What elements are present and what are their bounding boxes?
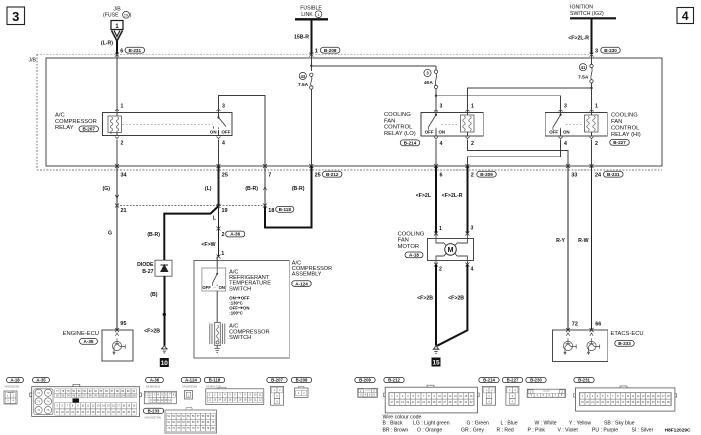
svg-text:15: 15: [432, 360, 440, 367]
svg-text:B-231: B-231: [578, 378, 590, 383]
svg-text:(L-R): (L-R): [101, 41, 113, 47]
wire 2L-R from ignition switch: [591, 18, 593, 54]
svg-text:R : Red: R : Red: [497, 428, 514, 434]
J/B inner solid box: [46, 58, 662, 166]
svg-text:BR : Brown: BR : Brown: [383, 428, 409, 434]
svg-text:1: 1: [439, 226, 442, 232]
fuse 3 40A: [435, 66, 437, 70]
wires 2B to ground 15: [435, 265, 437, 346]
dashed connector tie pins 6-2: [436, 169, 467, 171]
svg-text:ON: ON: [210, 130, 217, 135]
relay coil (pins 1-2): [115, 109, 119, 111]
svg-text:): ): [130, 13, 132, 19]
svg-text:R-Y: R-Y: [556, 238, 565, 244]
svg-text:ETACS-ECU: ETACS-ECU: [611, 331, 644, 337]
A/C compressor switch: [210, 324, 212, 345]
svg-text:72: 72: [572, 322, 578, 328]
svg-text:2: 2: [121, 141, 124, 147]
wire: A/C relay pin 4 to J/B pin 25: [218, 140, 220, 167]
svg-text:B-207: B-207: [82, 127, 95, 132]
J/B junction block dashed outline: [37, 54, 662, 170]
cooling fan control relay (LO) B-214: [421, 112, 483, 136]
svg-text:B-208: B-208: [296, 378, 308, 383]
svg-text:(FUSE: (FUSE: [103, 13, 119, 19]
svg-text:V : Violet: V : Violet: [558, 428, 579, 434]
svg-text:MOTOR: MOTOR: [398, 244, 419, 250]
svg-text:4: 4: [440, 141, 443, 147]
svg-text:B-233: B-233: [618, 341, 631, 346]
svg-text:B-212: B-212: [326, 172, 339, 177]
wire R-Y: J/B pin 33 to ETACS pin 72: [567, 166, 569, 330]
svg-text:104: 104: [121, 394, 126, 397]
connector A-18: [7, 377, 24, 382]
svg-text:1: 1: [595, 104, 598, 110]
svg-text:A-124: A-124: [185, 378, 197, 383]
svg-text:A-36: A-36: [230, 232, 240, 237]
svg-text:4: 4: [222, 141, 225, 147]
HI relay contact pins 3-4: [559, 110, 563, 112]
svg-text:106: 106: [132, 394, 137, 397]
dashed connector tie pins 33-24: [568, 169, 592, 171]
svg-text:B-214: B-214: [483, 378, 495, 383]
page marker 4: [677, 8, 694, 24]
wire: LO relay pin 4 to J/B pin 6: [435, 140, 437, 167]
svg-text:G: G: [108, 231, 112, 237]
svg-text:B-207: B-207: [271, 378, 283, 383]
svg-text:6: 6: [440, 173, 443, 179]
svg-text:(MU803754): (MU803754): [145, 416, 162, 420]
svg-text:OFF: OFF: [425, 130, 434, 135]
ETACS-ECU B-233: [553, 330, 608, 361]
svg-text:FAN: FAN: [611, 119, 622, 125]
LO relay contact pins 3-4: [434, 110, 438, 112]
wire: HI relay pin 4 to J/B pin 2 (B-209): [467, 140, 560, 167]
svg-text:MU803611: MU803611: [146, 385, 161, 389]
connector B-214: [479, 377, 499, 382]
page marker 3: [7, 7, 25, 25]
svg-text:43: 43: [300, 74, 305, 79]
bus: 40A fuse to HI relay pin 3: [436, 96, 561, 109]
in-line connector pin 21: [115, 195, 119, 198]
svg-text:Wire colour code: Wire colour code: [383, 414, 422, 420]
svg-text:B-227: B-227: [507, 378, 519, 383]
transistor in engine ECU: [112, 341, 121, 350]
svg-text:B-227: B-227: [613, 140, 626, 145]
svg-text:R-W: R-W: [578, 238, 588, 244]
wire: 6 B-231 down to A/C relay pin 1: [116, 55, 118, 109]
transistors in ETACS: [563, 341, 572, 350]
svg-text:15B-R: 15B-R: [294, 35, 309, 41]
svg-text:G : Green: G : Green: [467, 421, 490, 427]
wire: B-208 feed bus: [310, 55, 312, 71]
svg-text:Y : Yellow: Y : Yellow: [569, 421, 591, 427]
ground 10: [162, 346, 167, 349]
svg-text:40A: 40A: [424, 80, 433, 86]
svg-text:4: 4: [682, 9, 689, 23]
svg-text:(B-R): (B-R): [292, 186, 305, 192]
connector A-35: [33, 377, 50, 382]
connector A-36: [146, 377, 164, 382]
svg-text:19: 19: [222, 208, 228, 214]
svg-text:2: 2: [471, 141, 474, 147]
HI relay coil pins 1-2: [590, 110, 594, 112]
svg-text:COOLING: COOLING: [384, 112, 411, 118]
svg-text:A-36: A-36: [150, 378, 160, 383]
svg-text:RELAY (HI): RELAY (HI): [611, 132, 641, 138]
svg-text:B-230: B-230: [604, 48, 617, 53]
svg-text:(B): (B): [150, 292, 157, 298]
svg-text:SI : Silver: SI : Silver: [632, 428, 654, 434]
wire: LO relay pin 2 to J/B pin 33: [468, 140, 569, 167]
fuse 43 7.5A: [310, 73, 313, 76]
svg-text:RELAY (LO): RELAY (LO): [384, 131, 416, 137]
svg-text:1: 1: [315, 48, 318, 54]
svg-text:21: 21: [121, 208, 127, 214]
svg-text:(B-R): (B-R): [147, 232, 160, 238]
svg-text:4: 4: [471, 267, 474, 273]
svg-text:LINK: LINK: [301, 12, 313, 18]
wire (L): J/B pin 25 to junction 19: [218, 166, 220, 206]
svg-text:B-214: B-214: [404, 140, 417, 145]
svg-text:PU : Purple: PU : Purple: [592, 428, 618, 434]
svg-text:ON: ON: [563, 130, 570, 135]
bus: fuse 41 to relay coils (LO pin1, HI pin1): [468, 88, 592, 109]
svg-text:B-233: B-233: [148, 408, 160, 413]
connector B-212: [384, 377, 404, 382]
svg-text:COMPRESSOR: COMPRESSOR: [55, 119, 97, 125]
svg-text:A-35: A-35: [84, 339, 94, 344]
svg-text:<F>2B: <F>2B: [417, 296, 433, 302]
svg-text::100°C: :100°C: [229, 310, 242, 315]
svg-text:B-212: B-212: [388, 378, 400, 383]
wire: HI relay pin 2 to J/B pin 24: [591, 140, 593, 167]
svg-text:B-118: B-118: [279, 207, 292, 212]
svg-text:1: 1: [471, 104, 474, 110]
svg-text:W : White: W : White: [535, 421, 557, 427]
wire ignition fuse 41 7.5A: [591, 55, 593, 66]
svg-text:(B-R): (B-R): [245, 186, 258, 192]
svg-text:<F>2L-R: <F>2L-R: [568, 36, 589, 42]
svg-text:(L): (L): [205, 186, 212, 192]
svg-text:B-209: B-209: [480, 172, 493, 177]
wire (B-R): J/B pin 7 to in-line connector 18 B-118: [264, 166, 266, 206]
svg-text:ON: ON: [439, 130, 446, 135]
wire 15B-R: [310, 19, 312, 54]
svg-text:100: 100: [99, 394, 104, 397]
svg-text:7.5A: 7.5A: [578, 74, 589, 80]
svg-text:MU802565: MU802565: [183, 385, 198, 389]
svg-text:18: 18: [268, 208, 274, 214]
motor symbol: [436, 234, 467, 243]
svg-text:66: 66: [595, 322, 601, 328]
svg-text:ON: ON: [243, 305, 249, 310]
svg-text:ON: ON: [219, 285, 225, 290]
connector B-118: [204, 377, 224, 382]
wire inside assembly: [216, 291, 218, 322]
diode B-27: [155, 260, 172, 276]
A/C refrigerant temperature switch: [216, 257, 218, 269]
svg-text:3: 3: [564, 104, 567, 110]
connector B-207: [267, 377, 287, 382]
svg-text:B-231: B-231: [607, 172, 620, 177]
connector B-231: [574, 377, 594, 382]
svg-text:A-18: A-18: [10, 378, 20, 383]
connector B-209: [355, 377, 375, 382]
svg-text:2: 2: [439, 267, 442, 273]
svg-text:105: 105: [126, 394, 131, 397]
svg-text:(G): (G): [103, 186, 111, 192]
J/B bottom connector pins: [115, 164, 119, 168]
svg-text:3: 3: [595, 48, 598, 54]
svg-text:J/B: J/B: [29, 58, 37, 64]
connector B-230: [526, 377, 546, 382]
svg-text:M: M: [448, 247, 454, 254]
svg-text:B : Black: B : Black: [383, 421, 404, 427]
svg-text:7.5A: 7.5A: [298, 82, 309, 88]
svg-text:P : Pink: P : Pink: [528, 428, 546, 434]
dashed in-line connector line (21/19/18): [117, 205, 265, 207]
wire (B): diode to ground 10: [163, 276, 165, 345]
svg-text:DIODE: DIODE: [137, 262, 154, 268]
svg-text:ENGINE-ECU: ENGINE-ECU: [63, 331, 99, 337]
svg-text:<F>2B: <F>2B: [448, 296, 464, 302]
svg-text:GR : Grey: GR : Grey: [461, 428, 484, 434]
svg-text:<F>W: <F>W: [201, 242, 215, 248]
relay contact (pins 3-4): [217, 109, 221, 111]
wire: A/C relay pin 2 to J/B pin 34: [116, 140, 118, 167]
svg-text:MU802556: MU802556: [5, 385, 20, 389]
A/C compressor relay B-207: [102, 112, 232, 135]
svg-text:A-35: A-35: [36, 378, 46, 383]
svg-text:102: 102: [110, 394, 115, 397]
svg-text:B-208: B-208: [324, 48, 337, 53]
svg-text:LG : Light green: LG : Light green: [413, 421, 450, 427]
wire 2L: J/B pin 6 to fan motor pin 1: [435, 166, 437, 234]
svg-text:2: 2: [471, 173, 474, 179]
svg-text:H8F12029C: H8F12029C: [665, 428, 691, 434]
internal ground of assembly: [216, 346, 218, 349]
wire (B-R): J/B pin 25 B-212 jog to B-118: [265, 166, 311, 228]
LO relay coil pins 1-2: [466, 110, 470, 112]
svg-text:19: 19: [124, 13, 128, 17]
svg-text:O : Orange: O : Orange: [417, 428, 442, 434]
svg-text:COOLING: COOLING: [398, 232, 425, 238]
svg-text:7: 7: [268, 173, 271, 179]
cooling fan motor A-18: [428, 238, 474, 260]
svg-text:OFF: OFF: [222, 130, 231, 135]
connector A-124: [181, 377, 201, 382]
connector B-227: [502, 377, 522, 382]
svg-text:B-118: B-118: [209, 378, 221, 383]
svg-text:25: 25: [222, 173, 228, 179]
svg-text:2: 2: [595, 141, 598, 147]
svg-text:<F>2B: <F>2B: [144, 329, 160, 335]
wire (L-R) from J/B fuse: [116, 41, 118, 55]
svg-text:B-27: B-27: [142, 269, 153, 275]
svg-text:3: 3: [222, 104, 225, 110]
svg-text:A-18: A-18: [409, 253, 419, 258]
ground 15: [433, 346, 438, 349]
wire L: junction 19 to A-36 connector: [218, 206, 220, 257]
svg-text:OFF: OFF: [549, 130, 558, 135]
svg-text:CONTROL: CONTROL: [611, 126, 640, 132]
svg-text:34: 34: [121, 173, 128, 179]
svg-text:A-124: A-124: [295, 281, 308, 286]
svg-text:10: 10: [161, 360, 169, 367]
svg-text:SWITCH: SWITCH: [229, 286, 251, 292]
svg-text:SWITCH: SWITCH: [229, 335, 251, 341]
svg-text:ASSEMBLY: ASSEMBLY: [292, 271, 322, 277]
cooling fan control relay (HI) B-227: [545, 112, 607, 136]
svg-text:SB : Sky blue: SB : Sky blue: [604, 421, 635, 427]
svg-text:MU801515: MU801515: [206, 385, 221, 389]
svg-text:IGNITION: IGNITION: [570, 5, 593, 11]
wire 2L-R: J/B pin 2 B-209 to fan motor pin 3: [466, 166, 468, 234]
svg-text:COOLING: COOLING: [611, 113, 638, 119]
connector B-233: [143, 408, 163, 413]
svg-text:CONTROL: CONTROL: [384, 125, 413, 131]
svg-text:33: 33: [571, 173, 577, 179]
wire (G): J/B pin 34 to engine ECU pin 95: [116, 166, 118, 330]
svg-text:6: 6: [120, 48, 123, 54]
svg-text:FAN: FAN: [384, 118, 395, 124]
svg-text:95: 95: [120, 321, 126, 327]
svg-text:24: 24: [595, 173, 602, 179]
wire: A/C relay pin 3 loop to J/B pin 7: [219, 96, 266, 167]
svg-text:B-230: B-230: [530, 378, 542, 383]
svg-text:L : Blue: L : Blue: [501, 421, 518, 427]
svg-text:RELAY: RELAY: [55, 125, 74, 131]
wire R-W: J/B pin 24 to ETACS pin 66: [591, 166, 593, 330]
engine ECU A-35: [102, 330, 133, 361]
wire (B-R) branch: junction 19 to diode B-27: [164, 206, 218, 260]
svg-text:SWITCH (IG2): SWITCH (IG2): [570, 11, 604, 17]
svg-text:2: 2: [222, 232, 225, 238]
svg-text:B-231: B-231: [129, 48, 142, 53]
svg-text:4: 4: [564, 141, 567, 147]
svg-text:101: 101: [104, 394, 109, 397]
svg-text:FAN: FAN: [398, 238, 409, 244]
svg-text:<F>2L-R: <F>2L-R: [442, 193, 463, 199]
svg-text:<F>2L: <F>2L: [416, 193, 432, 199]
svg-text:25: 25: [315, 173, 321, 179]
svg-text:3: 3: [440, 104, 443, 110]
svg-text:1: 1: [121, 104, 124, 110]
svg-text:3: 3: [12, 9, 19, 24]
svg-text:1: 1: [221, 251, 224, 257]
svg-text:B-209: B-209: [359, 378, 371, 383]
svg-text:A/C: A/C: [55, 113, 65, 119]
svg-text:1: 1: [115, 23, 119, 30]
svg-text:41: 41: [581, 65, 586, 70]
A/C compressor assembly box A-124: [194, 261, 289, 358]
svg-text:OFF: OFF: [202, 285, 211, 290]
fuse symbol in J/B: [111, 21, 123, 30]
svg-text:3: 3: [471, 226, 474, 232]
svg-text:103: 103: [115, 394, 120, 397]
connector B-208: [291, 377, 311, 382]
